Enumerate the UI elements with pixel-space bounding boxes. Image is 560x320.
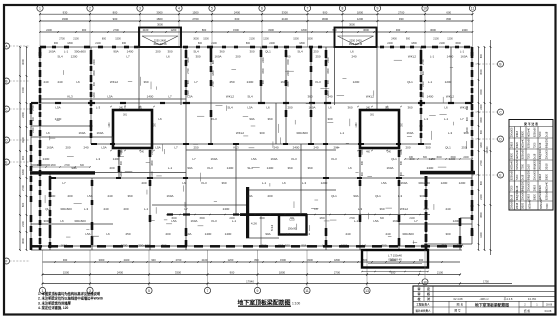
svg-text:B250x50: B250x50 [533,127,536,137]
svg-text:8: 8 [342,7,344,11]
svg-text:3000: 3000 [349,23,355,27]
svg-text:3000: 3000 [157,23,163,27]
svg-text:2100: 2100 [32,127,35,133]
svg-text:L-1: L-1 [168,166,173,170]
svg-text:2400: 2400 [49,194,56,198]
svg-text:L-1: L-1 [286,232,291,236]
svg-text:WKL2: WKL2 [110,80,119,84]
svg-text:160A: 160A [280,80,287,84]
svg-text:1200: 1200 [441,181,448,185]
svg-text:2700: 2700 [480,160,483,166]
svg-text:17940: 17940 [253,3,261,7]
svg-text:-408 m²: -408 m² [479,297,488,301]
svg-text:250: 250 [423,207,428,211]
svg-text:240: 240 [345,232,350,236]
svg-text:200: 200 [65,146,70,150]
svg-text:2100: 2100 [282,17,289,21]
svg-text:4.2K: 4.2K [251,222,257,226]
svg-text:L7: L7 [460,117,464,121]
svg-text:L-1: L-1 [144,207,149,211]
svg-text:2700: 2700 [32,105,35,111]
svg-text:160A: 160A [270,157,277,161]
svg-text:3Φ20: 3Φ20 [539,184,542,191]
svg-text:L5A: L5A [55,106,60,110]
svg-text:360: 360 [127,194,132,198]
svg-text:14640: 14640 [485,146,489,154]
svg-text:1200: 1200 [151,171,154,177]
svg-text:800: 800 [202,28,207,32]
svg-text:3600: 3600 [21,238,25,244]
svg-text:E: E [499,173,501,177]
svg-text:930: 930 [63,258,68,262]
svg-text:QL1: QL1 [445,146,451,150]
svg-text:160A: 160A [392,219,399,223]
svg-text:3000: 3000 [99,258,105,262]
svg-text:10: 10 [423,7,427,11]
svg-text:2400: 2400 [463,156,469,159]
svg-text:600: 600 [391,270,396,274]
svg-text:900: 900 [151,258,156,262]
svg-text:1200: 1200 [321,181,328,185]
svg-text:2100: 2100 [439,42,445,45]
svg-text:240: 240 [273,146,278,150]
svg-text:1400: 1400 [267,166,274,170]
svg-text:3000: 3000 [480,69,483,75]
svg-text:250: 250 [313,50,318,54]
svg-text:定: 定 [426,286,430,291]
svg-text:1800: 1800 [299,42,305,45]
svg-text:2400: 2400 [287,70,290,76]
svg-text:L-1: L-1 [430,55,435,59]
svg-text:7200: 7200 [546,203,549,209]
svg-text:B: B [5,79,7,83]
svg-text:1800: 1800 [319,217,325,220]
svg-text:2x18: 2x18 [533,153,536,159]
svg-text:QL1: QL1 [265,50,271,54]
svg-text:250x500: 250x500 [510,127,513,137]
svg-text:1800: 1800 [212,70,215,76]
svg-text:250x500: 250x500 [528,181,531,191]
svg-text:审: 审 [417,291,420,296]
svg-text:2Φ18: 2Φ18 [528,193,531,200]
svg-text:240: 240 [57,80,62,84]
svg-text:800: 800 [361,171,364,176]
svg-text:L7: L7 [168,95,172,99]
svg-text:900: 900 [230,270,235,274]
svg-text:360: 360 [307,95,312,99]
svg-text:300: 300 [261,244,266,248]
svg-text:Φ8@200: Φ8@200 [546,137,549,148]
svg-text:2Φ18: 2Φ18 [516,202,519,209]
svg-text:360: 360 [347,106,352,110]
svg-text:2700: 2700 [334,270,341,274]
svg-text:1200: 1200 [480,232,483,238]
svg-text:2700: 2700 [176,258,182,262]
svg-text:1800: 1800 [301,28,307,32]
svg-text:300x600: 300x600 [138,244,150,248]
svg-text:2100: 2100 [480,194,483,200]
svg-text:WKL2: WKL2 [366,95,375,99]
svg-text:L-3: L-3 [306,232,311,236]
svg-text:B250x50: B250x50 [540,199,543,209]
svg-text:SL4: SL4 [297,50,303,54]
svg-text:1500: 1500 [233,28,239,32]
svg-text:1. 本图梁顶标高均为结构标高详见结施说明: 1. 本图梁顶标高均为结构标高详见结施说明 [38,291,101,296]
svg-text:3300: 3300 [93,70,96,76]
svg-text:L7: L7 [126,55,130,59]
svg-text:1400: 1400 [147,95,154,99]
svg-text:800: 800 [423,156,428,159]
svg-text:200: 200 [405,146,410,150]
svg-text:地下室顶板梁配筋图: 地下室顶板梁配筋图 [475,302,509,307]
svg-text:2400: 2400 [293,146,300,150]
svg-text:L-1: L-1 [460,50,465,54]
svg-text:2400: 2400 [427,166,434,170]
svg-text:B250x50: B250x50 [528,138,531,148]
svg-text:2400: 2400 [269,42,275,45]
svg-text:2x18: 2x18 [510,194,513,200]
svg-text:930: 930 [63,10,68,14]
svg-text:L5A: L5A [171,219,176,223]
svg-text:2400: 2400 [223,207,230,211]
svg-text:3: 3 [139,7,141,11]
svg-text:校: 校 [417,296,420,301]
svg-text:2Φ18: 2Φ18 [516,130,519,137]
svg-text:E: E [5,160,7,164]
svg-text:Φ8@200: Φ8@200 [516,189,519,200]
svg-text:L-3: L-3 [302,181,307,185]
svg-text:800: 800 [113,10,118,14]
svg-text:2Φ18: 2Φ18 [539,173,542,180]
svg-text:KL3: KL3 [315,80,321,84]
svg-text:2100: 2100 [202,258,208,262]
svg-text:3000: 3000 [193,38,199,41]
svg-text:L6: L6 [444,106,448,110]
svg-text:QL1: QL1 [407,80,413,84]
svg-text:250x500: 250x500 [510,199,513,209]
svg-text:L6: L6 [328,106,332,110]
svg-text:930: 930 [361,160,364,165]
svg-text:200: 200 [235,55,240,59]
svg-text:200: 200 [165,232,170,236]
svg-text:1200: 1200 [447,38,453,41]
svg-text:L-1: L-1 [322,244,327,248]
svg-text:600: 600 [422,70,425,75]
svg-text:800: 800 [246,42,251,45]
svg-text:360: 360 [221,181,226,185]
svg-text:2400: 2400 [387,42,393,45]
svg-text:900: 900 [82,28,87,32]
svg-text:2700: 2700 [21,185,25,191]
svg-text:2100: 2100 [21,221,25,227]
svg-text:300: 300 [327,117,332,121]
svg-text:2100: 2100 [433,38,439,41]
svg-text:7200: 7200 [539,131,542,137]
svg-text:2400: 2400 [262,57,265,63]
svg-text:WKL2: WKL2 [460,106,469,110]
svg-text:2x18: 2x18 [521,174,524,180]
svg-text:2700: 2700 [192,17,199,21]
svg-text:360: 360 [307,166,312,170]
svg-text:381: 381 [123,114,128,117]
svg-text:2400: 2400 [124,258,130,262]
svg-text:1800: 1800 [279,270,286,274]
svg-text:1200: 1200 [357,17,364,21]
svg-text:2700: 2700 [212,81,215,87]
svg-text:250x500: 250x500 [521,190,524,200]
svg-text:600: 600 [32,116,35,121]
svg-text:2x18: 2x18 [528,164,531,170]
svg-text:L-3: L-3 [96,157,101,161]
svg-text:1: 1 [39,7,41,11]
svg-text:900: 900 [37,164,42,167]
svg-text:2100: 2100 [73,38,79,41]
svg-text:9: 9 [377,7,379,11]
svg-text:QL1: QL1 [391,157,397,161]
svg-text:7200: 7200 [510,185,513,191]
svg-text:7200: 7200 [533,142,536,148]
svg-text:2700: 2700 [113,28,119,32]
svg-text:800: 800 [254,258,259,262]
svg-text:3Φ20: 3Φ20 [521,130,524,137]
svg-text:300: 300 [161,244,166,248]
svg-text:WKL2: WKL2 [226,95,235,99]
svg-text:1200: 1200 [341,244,348,248]
svg-text:L-1: L-1 [262,181,267,185]
svg-text:L-3: L-3 [96,106,101,110]
svg-text:L6: L6 [60,219,64,223]
svg-text:7: 7 [207,289,209,293]
svg-text:900: 900 [480,129,483,134]
svg-text:600: 600 [21,202,25,207]
svg-text:300x600: 300x600 [74,219,86,223]
svg-text:300x600: 300x600 [74,50,86,54]
svg-text:160A: 160A [400,181,407,185]
svg-text:2400: 2400 [462,28,468,32]
svg-text:250x500: 250x500 [546,149,549,159]
svg-text:4. 梁定位详建施, 120: 4. 梁定位详建施, 120 [38,305,69,310]
svg-text:KL3: KL3 [331,157,337,161]
svg-text:Φ8@200: Φ8@200 [533,159,536,170]
svg-text:7: 7 [307,7,309,11]
svg-text:360: 360 [285,55,290,59]
svg-text:1500: 1500 [293,38,299,41]
svg-text:1500: 1500 [115,38,121,41]
svg-text:1500: 1500 [480,89,483,95]
svg-text:2400: 2400 [391,38,397,41]
svg-text:W25x40: W25x40 [521,138,524,148]
svg-text:90A: 90A [421,244,426,248]
svg-text:L-3: L-3 [398,194,403,198]
svg-text:3000: 3000 [436,156,442,159]
svg-text:1500: 1500 [21,87,25,93]
svg-text:900: 900 [323,10,328,14]
svg-text:381: 381 [370,114,375,117]
svg-text:1400: 1400 [205,232,212,236]
svg-text:160A: 160A [190,219,197,223]
svg-text:3300: 3300 [282,10,289,14]
svg-text:160A: 160A [48,50,55,54]
svg-text:3600: 3600 [151,160,154,166]
svg-text:1500: 1500 [280,258,286,262]
svg-text:SL4: SL4 [193,50,199,54]
svg-text:1200: 1200 [453,219,460,223]
svg-text:KL3: KL3 [233,146,239,150]
svg-text:1800: 1800 [187,57,190,63]
svg-text:930: 930 [400,160,403,165]
svg-text:L5A: L5A [251,157,256,161]
svg-text:KL3: KL3 [201,181,207,185]
svg-text:300x600: 300x600 [402,232,414,236]
svg-text:L6: L6 [348,166,352,170]
svg-text:F: F [6,259,8,263]
svg-text:Φ8@200: Φ8@200 [528,169,531,180]
svg-text:2400: 2400 [247,80,254,84]
svg-text:QL1: QL1 [375,194,381,198]
svg-text:300x600: 300x600 [418,181,430,185]
svg-text:3600: 3600 [422,92,425,98]
svg-text:360: 360 [219,50,224,54]
svg-text:KL3: KL3 [211,219,217,223]
svg-text:250: 250 [193,146,198,150]
svg-text:核: 核 [427,291,430,296]
svg-text:B=0.8: B=0.8 [271,224,274,231]
svg-text:SL4: SL4 [57,55,63,59]
svg-text:250x500: 250x500 [539,159,542,169]
svg-text:L5A: L5A [87,194,92,198]
svg-text:13: 13 [365,289,369,293]
svg-text:300: 300 [419,194,424,198]
svg-text:900: 900 [93,81,96,86]
svg-text:930: 930 [396,28,401,32]
svg-text:3Φ20: 3Φ20 [510,152,513,159]
svg-text:240: 240 [313,146,318,150]
svg-text:3Φ20: 3Φ20 [516,141,519,148]
svg-text:1400: 1400 [127,50,134,54]
svg-text:1400: 1400 [427,95,434,99]
svg-text:1400: 1400 [227,166,234,170]
svg-text:240: 240 [327,95,332,99]
svg-text:11: 11 [471,7,475,11]
svg-text:300: 300 [259,131,264,135]
svg-text:1500: 1500 [203,38,209,41]
svg-text:300: 300 [43,219,48,223]
svg-text:930: 930 [122,42,127,45]
svg-text:240: 240 [107,194,112,198]
svg-text:3300: 3300 [268,28,274,32]
svg-text:对: 对 [427,296,430,301]
svg-text:160A: 160A [406,131,413,135]
svg-text:360: 360 [407,106,412,110]
svg-text:160A: 160A [386,166,393,170]
svg-text:设计总负责人: 设计总负责人 [415,309,431,313]
svg-text:1200: 1200 [171,28,177,32]
svg-text:L-1: L-1 [428,80,433,84]
svg-text:250x500: 250x500 [533,170,536,180]
svg-text:3300: 3300 [307,258,313,262]
svg-text:2400: 2400 [480,104,483,110]
svg-text:930: 930 [399,17,404,21]
svg-text:L5A: L5A [381,181,386,185]
svg-text:1200: 1200 [445,80,452,84]
svg-text:KL3: KL3 [211,117,217,121]
svg-text:KL3: KL3 [67,95,73,99]
svg-text:B250x50: B250x50 [516,159,519,169]
svg-text:800: 800 [446,17,451,21]
svg-text:3300: 3300 [175,270,182,274]
svg-text:3Φ20: 3Φ20 [546,173,549,180]
svg-text:160A: 160A [308,106,315,110]
svg-text:05Z518 40: 05Z518 40 [388,258,402,262]
svg-text:L7: L7 [62,181,66,185]
svg-text:600: 600 [480,180,483,185]
svg-text:平4 4.8: 平4 4.8 [504,297,513,301]
svg-text:3300: 3300 [62,17,69,21]
svg-text:900: 900 [21,155,25,160]
svg-text:2700: 2700 [64,164,70,167]
svg-text:1240: 1240 [356,122,358,128]
svg-text:2. 未注明梁定位均以轴线居中或墙边平WG06: 2. 未注明梁定位均以轴线居中或墙边平WG06 [38,296,103,301]
svg-text:160A: 160A [214,55,221,59]
svg-text:2100: 2100 [422,81,425,87]
svg-text:03-08: 03-08 [545,309,552,313]
svg-text:300: 300 [445,232,450,236]
svg-text:200: 200 [287,106,292,110]
svg-text:250: 250 [315,55,320,59]
svg-text:L13: L13 [289,218,294,222]
svg-text:1200: 1200 [449,157,456,161]
svg-text:1800: 1800 [50,164,56,167]
svg-text:L5A: L5A [155,146,160,150]
svg-text:3Φ20: 3Φ20 [521,202,524,209]
svg-text:L5A: L5A [373,219,378,223]
svg-text:L5A: L5A [101,146,106,150]
svg-text:2100: 2100 [151,149,154,155]
svg-text:2400: 2400 [46,28,52,32]
svg-text:名: 名 [461,303,464,307]
svg-text:地下室顶板梁配筋图: 地下室顶板梁配筋图 [237,298,290,306]
svg-text:L-3: L-3 [362,244,367,248]
svg-text:1500: 1500 [287,59,290,65]
svg-text:2Φ18: 2Φ18 [546,163,549,170]
svg-text:KL3: KL3 [291,157,297,161]
svg-text:2400: 2400 [234,10,241,14]
svg-text:L-1: L-1 [232,219,237,223]
svg-text:800: 800 [480,53,483,58]
svg-text:B: B [499,62,501,66]
svg-text:360: 360 [463,131,468,135]
svg-text:3000: 3000 [156,10,163,14]
svg-text:L-1: L-1 [354,219,359,223]
svg-text:2400: 2400 [327,57,330,63]
svg-text:160A: 160A [60,244,67,248]
svg-text:3600: 3600 [480,212,483,218]
svg-text:900: 900 [54,42,59,45]
svg-text:200: 200 [267,194,272,198]
svg-text:L-3: L-3 [448,131,453,135]
svg-text:600: 600 [380,217,385,220]
svg-text:600: 600 [446,10,451,14]
svg-text:90A: 90A [187,166,192,170]
svg-text:Φ8@200: Φ8@200 [521,180,524,191]
svg-text:2x18: 2x18 [546,131,549,137]
svg-text:160A: 160A [210,157,217,161]
svg-text:2Φ18: 2Φ18 [533,184,536,191]
svg-text:2100: 2100 [95,42,101,45]
svg-text:3300: 3300 [480,117,483,123]
svg-text:3300: 3300 [307,38,313,41]
svg-text:360: 360 [379,207,384,211]
